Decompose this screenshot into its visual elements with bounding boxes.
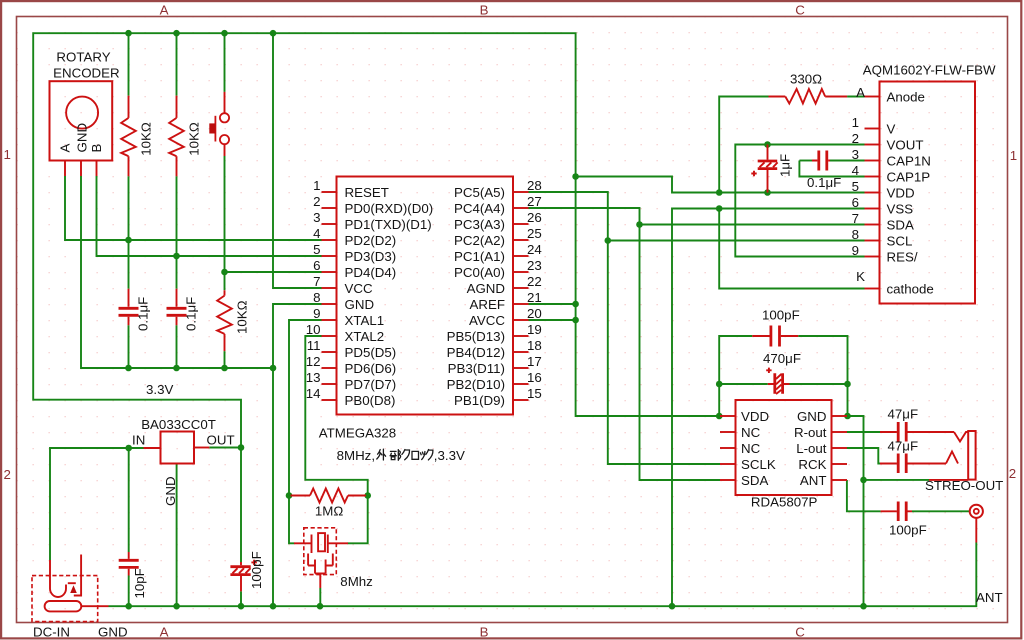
svg-text:NC: NC: [741, 441, 761, 456]
capacitor C9 47uF R-out: [880, 407, 954, 442]
svg-text:L-out: L-out: [796, 441, 827, 456]
junction dots top 3.3V rail: [125, 30, 276, 37]
svg-text:B: B: [480, 625, 489, 640]
svg-text:VCC: VCC: [345, 281, 373, 296]
junction dot jack sleeve GND: [860, 477, 867, 484]
wire C2 top lead: [176, 256, 178, 289]
svg-text:ENCODER: ENCODER: [53, 66, 120, 81]
svg-text:GND: GND: [345, 297, 375, 312]
wire LCD VSS row and down to bottom rail: [672, 209, 865, 607]
svg-text:24: 24: [527, 242, 542, 257]
wire XTAL2 pin10 to crystal right: [305, 336, 367, 543]
svg-text:330Ω: 330Ω: [790, 72, 822, 87]
wire CAP1N cap to pin: [830, 160, 865, 162]
svg-text:BA033CC0T: BA033CC0T: [141, 417, 216, 432]
svg-text:14: 14: [306, 386, 321, 401]
svg-text:PB2(D10): PB2(D10): [447, 377, 505, 392]
svg-text:9: 9: [313, 306, 320, 321]
svg-text:OUT: OUT: [207, 433, 235, 448]
LCD pin names: [887, 90, 934, 297]
RDA right pin stubs: [832, 416, 848, 480]
regulator OUT stub: [194, 447, 209, 449]
RDA left pin names: [741, 409, 776, 488]
svg-text:2: 2: [3, 467, 10, 482]
wire SCL branch to LCD: [608, 240, 865, 242]
RDA right pin names: [794, 409, 827, 488]
svg-text:26: 26: [527, 210, 542, 225]
svg-text:CAP1N: CAP1N: [887, 154, 931, 169]
wire R2 bottom to PD3 net: [176, 176, 178, 256]
svg-text:A: A: [160, 625, 169, 640]
svg-text:25: 25: [527, 226, 542, 241]
svg-text:11: 11: [307, 338, 321, 353]
wire regulator OUT to 3.3V: [209, 447, 241, 449]
svg-text:8: 8: [852, 227, 859, 242]
wire XTAL1 pin9 to crystal left: [289, 320, 322, 543]
junction dots bottom GND rail: [125, 603, 866, 610]
capacitor C3 10pF input: [119, 552, 147, 599]
wire C1 top lead: [128, 240, 130, 289]
svg-text:GND: GND: [98, 625, 128, 640]
svg-text:15: 15: [527, 386, 542, 401]
wire 100pF to antenna pad: [912, 510, 969, 512]
svg-text:5: 5: [313, 242, 320, 257]
svg-text:STREO-OUT: STREO-OUT: [925, 478, 1003, 493]
svg-text:10KΩ: 10KΩ: [139, 122, 154, 156]
svg-text:NC: NC: [741, 425, 761, 440]
wire GND rail y368 from encoder GND lead: [81, 176, 273, 368]
svg-text:4: 4: [313, 226, 320, 241]
svg-text:SDA: SDA: [887, 218, 914, 233]
svg-text:12: 12: [306, 354, 321, 369]
svg-text:19: 19: [527, 322, 542, 337]
svg-text:A: A: [57, 144, 72, 153]
U1 left pin stubs pins 1-14: [322, 192, 337, 400]
wire jack sleeve to GND: [864, 479, 930, 481]
svg-text:PB5(D13): PB5(D13): [447, 329, 505, 344]
svg-text:GND: GND: [74, 123, 89, 153]
svg-text:100pF: 100pF: [249, 551, 264, 589]
svg-text:A: A: [160, 2, 169, 17]
wire 470uF left lead: [719, 383, 768, 385]
svg-text:47μF: 47μF: [888, 407, 919, 422]
svg-text:AVCC: AVCC: [469, 313, 505, 328]
svg-text:GND: GND: [163, 476, 178, 506]
svg-text:28: 28: [527, 178, 542, 193]
headphone jack J2 STREO-OUT: [925, 431, 1003, 493]
svg-text:SDA: SDA: [741, 473, 768, 488]
svg-text:3: 3: [852, 147, 859, 162]
junction dots RDA bypass caps: [716, 381, 851, 420]
svg-text:20: 20: [527, 306, 542, 321]
svg-text:GND: GND: [797, 409, 827, 424]
wire encoder A to PD2: [65, 176, 322, 240]
U1 right pin numbers 28-15: [527, 178, 542, 401]
svg-text:C: C: [795, 2, 805, 17]
svg-text:8MHz,: 8MHz,: [337, 448, 375, 463]
crystal X1 8MHz with case: [294, 528, 373, 606]
encoder shaft circle: [66, 97, 98, 129]
svg-text:0.1μF: 0.1μF: [807, 175, 841, 190]
wire SCL net: pin28 to RDA SCLK: [529, 192, 721, 464]
svg-text:6: 6: [313, 258, 320, 273]
svg-text:27: 27: [527, 194, 542, 209]
resistor R5 1M ohm crystal bias: [291, 489, 367, 519]
wire AVCC to 3.3V column: [529, 319, 576, 321]
svg-text:PD1(TXD)(D1): PD1(TXD)(D1): [345, 217, 432, 232]
svg-text:RESET: RESET: [345, 185, 389, 200]
svg-text:RDA5807P: RDA5807P: [751, 495, 818, 510]
wire C4 top lead from 3.3V: [240, 448, 242, 563]
capacitor C5 1uF polarized LCD: [751, 145, 792, 193]
svg-text:2: 2: [1009, 466, 1016, 481]
wire CAP1P row: [799, 161, 864, 177]
svg-text:7: 7: [852, 211, 859, 226]
wire RDA VDD up to bypass caps left side: [719, 336, 752, 416]
wire R1 bottom to PD2 net: [128, 176, 130, 240]
junction dots 1M ohm / crystal: [286, 492, 371, 499]
wire 3.3V branch to VCC pin7: [273, 33, 322, 288]
wire 3.3V main loop: regulator OUT up left side, top rail, down to AVCC column and RDA VDD: [33, 33, 719, 447]
svg-text:1: 1: [852, 115, 859, 130]
U1 right pin names: [447, 185, 506, 408]
wire R1 top lead to 3.3V rail: [128, 33, 130, 95]
svg-text:10KΩ: 10KΩ: [187, 122, 202, 156]
wire ANT down to 100pF: [847, 480, 881, 511]
IC U1 ATMEGA328 body: [337, 177, 514, 415]
svg-text:PC5(A5): PC5(A5): [454, 185, 505, 200]
svg-text:PD2(D2): PD2(D2): [345, 233, 397, 248]
svg-text:PB4(D12): PB4(D12): [447, 345, 505, 360]
svg-text:V: V: [887, 122, 896, 137]
U1 right pin stubs pins 28-15: [513, 192, 529, 400]
wire SDA branch to LCD: [640, 224, 865, 226]
svg-text:1MΩ: 1MΩ: [315, 504, 343, 519]
capacitor C2 0.1uF debounce B: [167, 289, 199, 331]
capacitor C1 0.1uF debounce A: [119, 289, 151, 331]
svg-text:PC3(A3): PC3(A3): [454, 217, 505, 232]
svg-text:3.3V: 3.3V: [146, 382, 173, 397]
wire button to PD4: [225, 156, 322, 272]
svg-text:18: 18: [527, 338, 542, 353]
wire R-out to 47uF: [847, 431, 881, 433]
svg-text:0.1μF: 0.1μF: [184, 297, 199, 331]
svg-text:PD7(D7): PD7(D7): [345, 377, 397, 392]
svg-text:B: B: [480, 2, 489, 17]
junction dots 3.3V column: [572, 173, 579, 323]
svg-text:21: 21: [527, 290, 542, 305]
svg-text:10: 10: [306, 322, 321, 337]
svg-text:PC2(A2): PC2(A2): [454, 233, 505, 248]
svg-text:9: 9: [852, 243, 859, 258]
svg-text:Anode: Anode: [887, 90, 925, 105]
svg-text:PB0(D8): PB0(D8): [345, 393, 396, 408]
svg-text:PC0(A0): PC0(A0): [454, 265, 505, 280]
capacitor C10 47uF L-out: [880, 438, 946, 473]
svg-text:5: 5: [852, 179, 859, 194]
wire C3 bottom to GND rail: [128, 576, 130, 607]
wire C4 bottom to GND rail: [240, 591, 242, 606]
wire button top to 3.3V rail: [224, 33, 226, 92]
capacitor C11 100pF antenna coupling: [881, 502, 927, 538]
wire R3 top lead from button net: [224, 272, 226, 290]
resistor R2 10K pullup encoder B: [169, 96, 201, 177]
svg-text:ATMEGA328: ATMEGA328: [319, 426, 396, 441]
svg-text:B: B: [89, 144, 104, 153]
svg-text:XTAL2: XTAL2: [345, 329, 385, 344]
svg-text:8: 8: [313, 290, 320, 305]
svg-text:A: A: [856, 85, 865, 100]
junction dot regulator IN: [125, 445, 132, 452]
resistor R4 330 ohm backlight: [769, 72, 848, 104]
RDA left pin stubs: [720, 416, 736, 480]
wire C3 10pF top lead: [128, 448, 130, 552]
wire C1 bottom to GND rail: [128, 325, 130, 368]
push button S1: [209, 92, 229, 156]
svg-text:1μF: 1μF: [778, 154, 793, 177]
svg-text:CAP1P: CAP1P: [887, 170, 931, 185]
svg-text:VDD: VDD: [887, 186, 915, 201]
svg-text:2: 2: [313, 194, 320, 209]
U1 value label 8MHz external clock 3.3V: [337, 448, 465, 463]
svg-text:PD5(D5): PD5(D5): [345, 345, 397, 360]
capacitor C8 470uF polarized RDA: [763, 351, 801, 394]
encoder pin leads: [65, 161, 97, 177]
DC-IN barrel jack J1: [32, 555, 109, 622]
wire L-out to 47uF: [847, 448, 881, 464]
svg-text:16: 16: [527, 370, 542, 385]
svg-text:13: 13: [306, 370, 321, 385]
U1 left pin numbers 1-14: [306, 178, 321, 401]
IC U2 regulator BA033CC0T body: [161, 432, 195, 464]
wire regulator GND to bottom rail: [176, 464, 178, 607]
wire 470uF right lead: [790, 383, 848, 385]
svg-text:VSS: VSS: [887, 202, 914, 217]
resistor R3 10K pulldown button: [217, 290, 249, 351]
wire RDA GND to bottom rail: [846, 416, 864, 606]
svg-text:SCLK: SCLK: [741, 457, 776, 472]
svg-text:PD0(RXD)(D0): PD0(RXD)(D0): [345, 201, 434, 216]
svg-text:3: 3: [313, 210, 320, 225]
LCD pin ids: [852, 85, 866, 284]
svg-text:2: 2: [852, 131, 859, 146]
capacitor C7 100pF RDA bypass: [752, 307, 799, 346]
svg-text:8Mhz: 8Mhz: [340, 574, 373, 589]
junction dots encoder/button nets: [125, 237, 228, 276]
svg-text:C: C: [795, 625, 805, 640]
wire 3.3V feed to LCD VDD row: [576, 177, 865, 193]
U1 left pin names: [345, 185, 434, 408]
rotary encoder ENC1 body: [50, 81, 113, 160]
wire C2 bottom to GND rail: [176, 325, 178, 368]
wire R3 bottom to GND rail: [224, 351, 226, 368]
svg-text:7: 7: [313, 274, 320, 289]
wire LCD cathode to VSS net: [719, 209, 864, 289]
junction dot SDA branch: [636, 221, 643, 228]
wire DC-IN to regulator IN: [50, 448, 144, 560]
junction dot SCL branch: [605, 237, 612, 244]
wire encoder B to PD3: [97, 176, 322, 256]
svg-text:ANT: ANT: [976, 590, 1003, 605]
svg-text:PC4(A4): PC4(A4): [454, 201, 505, 216]
wire GND from ATMEGA pin8 down to GND rails: [273, 304, 322, 606]
wire AREF to 3.3V column: [529, 303, 576, 305]
svg-text:K: K: [856, 269, 865, 284]
wire RDA GND up to bypass caps right side: [798, 336, 847, 416]
svg-text:23: 23: [527, 258, 542, 273]
svg-text:PD6(D6): PD6(D6): [345, 361, 397, 376]
capacitor C6 0.1uF LCD charge pump: [807, 151, 841, 190]
wire R2 top lead to 3.3V rail: [176, 33, 178, 95]
capacitor C4 100pF polarized output: [230, 551, 264, 591]
junction dots LCD power: [716, 141, 771, 212]
svg-text:PC1(A1): PC1(A1): [454, 249, 505, 264]
svg-text:17: 17: [527, 354, 542, 369]
wire LCD anode from 330 ohm to VDD net: [719, 97, 768, 193]
svg-text:VOUT: VOUT: [887, 138, 924, 153]
svg-text:100pF: 100pF: [889, 522, 927, 537]
svg-text:6: 6: [852, 195, 859, 210]
regulator IN stub: [144, 447, 161, 449]
LCD pin stubs: [865, 97, 880, 289]
svg-text:,3.3V: ,3.3V: [434, 448, 465, 463]
svg-text:PD4(D4): PD4(D4): [345, 265, 397, 280]
svg-text:100pF: 100pF: [762, 307, 800, 322]
svg-text:4: 4: [852, 163, 859, 178]
wire bottom GND rail with antenna riser: [109, 543, 977, 607]
svg-text:XTAL1: XTAL1: [345, 313, 385, 328]
svg-text:R-out: R-out: [794, 425, 827, 440]
svg-text:cathode: cathode: [887, 282, 934, 297]
svg-text:DC-IN: DC-IN: [33, 625, 70, 640]
resistor R1 10K pullup encoder A: [121, 96, 153, 177]
svg-text:22: 22: [527, 274, 542, 289]
svg-text:1: 1: [1010, 148, 1017, 163]
svg-text:RCK: RCK: [798, 457, 826, 472]
svg-text:47μF: 47μF: [888, 438, 919, 453]
junction dot regulator OUT: [238, 444, 245, 451]
svg-text:0.1μF: 0.1μF: [136, 297, 151, 331]
svg-text:AQM1602Y-FLW-FBW: AQM1602Y-FLW-FBW: [863, 62, 996, 77]
svg-text:PB3(D11): PB3(D11): [448, 361, 505, 376]
junction dots GND rail y368: [125, 365, 276, 372]
svg-text:1: 1: [3, 147, 10, 162]
svg-text:10pF: 10pF: [132, 568, 147, 598]
svg-text:SCL: SCL: [887, 234, 913, 249]
wire 330 ohm right to anode pin: [847, 96, 864, 98]
wire LCD VOUT to RES/: [735, 145, 864, 257]
svg-text:1: 1: [313, 178, 320, 193]
svg-text:10KΩ: 10KΩ: [235, 300, 250, 334]
wire CAP1N row: [799, 160, 812, 162]
svg-text:ROTARY: ROTARY: [56, 50, 110, 65]
svg-text:IN: IN: [132, 433, 145, 448]
svg-text:RES/: RES/: [887, 250, 918, 265]
svg-text:ANT: ANT: [800, 473, 827, 488]
IC U3 RDA5807P body: [736, 400, 832, 495]
svg-text:470μF: 470μF: [763, 351, 801, 366]
svg-text:AGND: AGND: [467, 281, 505, 296]
svg-text:PD3(D3): PD3(D3): [345, 249, 397, 264]
wire SDA net: pin27 to RDA SDA: [529, 208, 721, 480]
svg-text:VDD: VDD: [741, 409, 769, 424]
svg-text:PB1(D9): PB1(D9): [454, 393, 505, 408]
IC LCD1 AQM1602Y-FLW-FBW body: [880, 82, 976, 304]
antenna pad J3: [970, 505, 1003, 605]
svg-text:AREF: AREF: [470, 297, 505, 312]
